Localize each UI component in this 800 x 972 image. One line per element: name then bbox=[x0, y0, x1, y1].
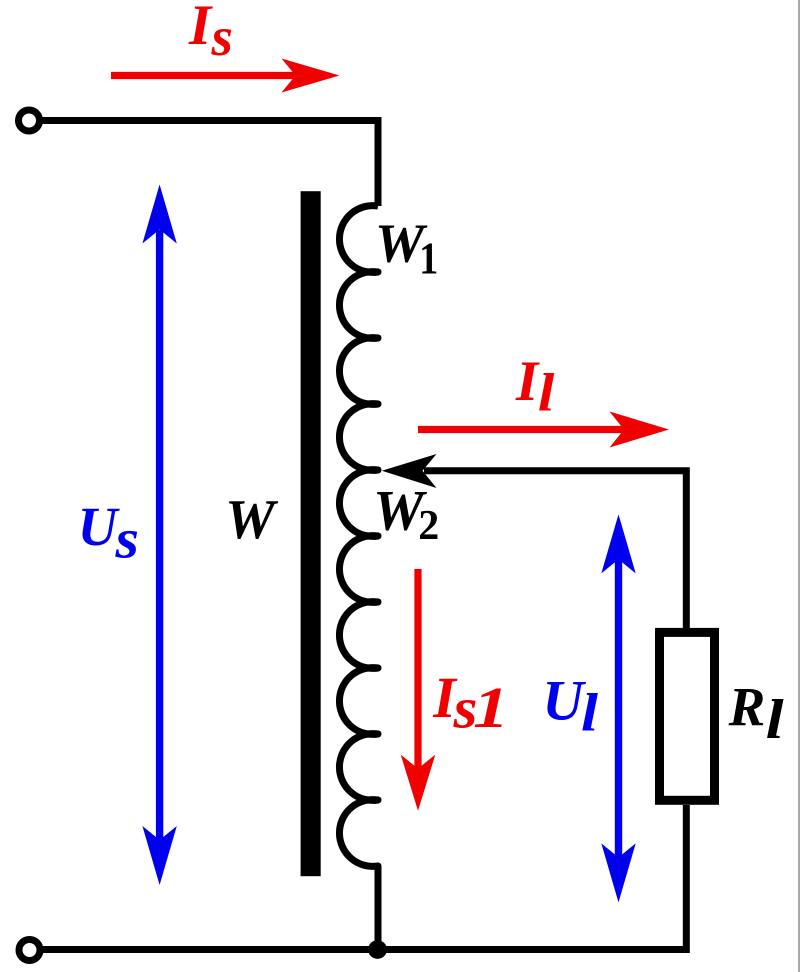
svg-text:s: s bbox=[211, 6, 233, 67]
current arrow Il (red, load current) bbox=[418, 426, 626, 433]
wire: tap to load (horizontal, then down right side) bbox=[424, 471, 686, 628]
svg-text:2: 2 bbox=[418, 503, 439, 549]
svg-text:1: 1 bbox=[473, 675, 509, 740]
svg-text:I: I bbox=[188, 0, 213, 57]
svg-text:l: l bbox=[538, 363, 555, 423]
svg-text:U: U bbox=[78, 496, 121, 557]
tap arrowhead (wiper) bbox=[382, 454, 437, 488]
voltage arrow Ul (blue, double headed) bbox=[615, 559, 622, 858]
wire: resistor bottom to bottom rail, bottom rail to terminal bbox=[43, 805, 686, 950]
winding W1+W2 (autotransformer coil) bbox=[339, 206, 378, 950]
svg-text:R: R bbox=[728, 677, 766, 738]
resistor Rl bbox=[660, 632, 715, 800]
junction node (coil bottom joins rail) bbox=[368, 940, 387, 959]
current arrow Is (red, source current) bbox=[111, 72, 297, 79]
core W (iron bar) bbox=[301, 191, 321, 876]
terminal (bottom-left) bbox=[19, 940, 40, 961]
svg-text:l: l bbox=[766, 689, 785, 751]
svg-text:l: l bbox=[581, 682, 598, 742]
svg-text:s: s bbox=[114, 508, 139, 570]
current arrow Is1 (red, winding-2 current, downward) bbox=[414, 569, 421, 769]
terminal (top-left) bbox=[19, 110, 40, 131]
svg-text:1: 1 bbox=[419, 233, 438, 284]
right border line bbox=[798, 0, 800, 972]
svg-text:U: U bbox=[542, 669, 586, 732]
wire: top lead from terminal to winding top bbox=[42, 121, 378, 207]
svg-text:W: W bbox=[225, 489, 279, 551]
voltage arrow Us (blue, double headed) bbox=[156, 230, 163, 840]
svg-text:I: I bbox=[515, 350, 540, 413]
